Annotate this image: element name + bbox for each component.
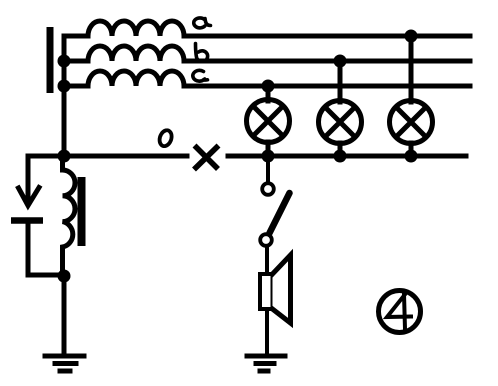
node lamp3 top on line a (405, 30, 418, 43)
node lamp2 top on line b (334, 55, 347, 68)
wire neutral vertical from coils down to 0 bus (62, 36, 67, 156)
label c (193, 70, 208, 81)
coil core bar (78, 177, 86, 246)
wire lamp1 bottom (266, 142, 271, 156)
wire 0 bus right segment (228, 154, 466, 159)
switch contact top (262, 183, 274, 195)
wire line b (184, 59, 470, 64)
node neutral-b junction (58, 55, 71, 68)
lamp HL1 (247, 100, 290, 143)
node lamp1 top on line c (262, 80, 275, 93)
node lamp3 bottom on 0 bus (405, 150, 418, 163)
node lamp1 bottom on 0 bus (262, 150, 275, 163)
switch contact bottom (260, 234, 272, 246)
node lamp2 bottom on 0 bus (334, 150, 347, 163)
inductor winding phase c (64, 71, 184, 86)
wire line a (184, 34, 470, 39)
speaker horn (273, 255, 291, 323)
lamp HL3 (390, 101, 433, 144)
inductor winding phase a (64, 21, 184, 36)
fault marker X on 0 bus (196, 148, 217, 168)
arrester plate electrode (11, 217, 43, 224)
label b (196, 44, 208, 62)
wire 0 bus left segment (28, 156, 187, 198)
wire line c (184, 84, 470, 89)
figure number circle (379, 291, 421, 333)
wire lamp2 bottom (338, 143, 343, 156)
switch blade (270, 193, 290, 233)
wire lamp3 bottom (409, 143, 414, 156)
wire switch top lead (266, 156, 270, 182)
node neutral-c junction (58, 80, 71, 93)
node neutral on 0 bus (58, 150, 71, 163)
wire lamp3 top (409, 36, 414, 102)
wire lamp1 top (266, 86, 271, 101)
lamp HL2 (319, 101, 362, 144)
inductor arc-suppression coil (63, 156, 76, 276)
arrester arrow (19, 188, 40, 206)
wire coil bottom to ground (62, 276, 67, 356)
figure number 4 (387, 294, 411, 329)
label 0 (160, 130, 172, 146)
wire switch to speaker (265, 246, 269, 356)
wire from plate to coil bottom (28, 224, 64, 275)
node coil bottom junction (58, 270, 71, 283)
wire lamp2 top (338, 61, 343, 102)
inductor winding phase b (64, 46, 184, 61)
transformer core bar (47, 27, 54, 93)
label a (194, 18, 211, 28)
ground middle (247, 356, 285, 371)
ground left (45, 356, 84, 371)
speaker body (260, 274, 273, 309)
